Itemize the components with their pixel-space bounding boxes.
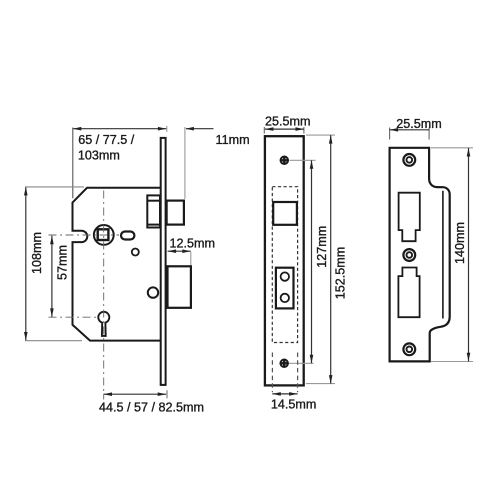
svg-text:152.5mm: 152.5mm — [333, 247, 347, 300]
svg-text:65 / 77.5 /: 65 / 77.5 / — [78, 133, 135, 147]
svg-text:108mm: 108mm — [30, 232, 44, 274]
svg-text:103mm: 103mm — [78, 149, 120, 163]
svg-text:140mm: 140mm — [453, 222, 467, 264]
svg-text:14.5mm: 14.5mm — [271, 398, 317, 412]
svg-text:25.5mm: 25.5mm — [396, 117, 442, 131]
svg-text:25.5mm: 25.5mm — [265, 114, 311, 128]
svg-text:127mm: 127mm — [315, 226, 329, 268]
svg-text:12.5mm: 12.5mm — [170, 236, 216, 250]
svg-text:57mm: 57mm — [56, 245, 70, 280]
svg-text:11mm: 11mm — [216, 133, 250, 147]
svg-text:44.5 / 57 / 82.5mm: 44.5 / 57 / 82.5mm — [99, 401, 204, 415]
